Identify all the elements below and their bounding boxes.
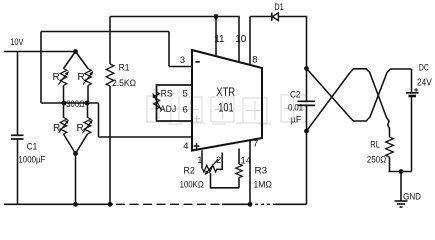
node bridge-rail junction <box>73 202 78 207</box>
wire R1 top <box>109 17 111 65</box>
svg-text:R: R <box>53 123 60 134</box>
wire pin8 to diode <box>250 16 272 18</box>
wire upper-right stub <box>87 86 89 104</box>
svg-text:300Ω: 300Ω <box>66 99 84 110</box>
svg-text:2.5KΩ: 2.5KΩ <box>112 78 136 89</box>
svg-text:7: 7 <box>253 139 258 150</box>
wire pin1 drop <box>201 150 203 168</box>
svg-text:C1: C1 <box>27 142 38 153</box>
wire bridge bottom drop <box>75 154 77 205</box>
node R1-rail junction <box>108 202 113 207</box>
svg-text:D1: D1 <box>274 2 283 13</box>
wire 10V rail <box>4 51 76 53</box>
wire C2 to rail <box>306 131 308 204</box>
resistor R strain-gauge upper-right <box>85 69 92 86</box>
wire pin3 entry <box>169 66 192 68</box>
label plus pin4 <box>194 145 200 147</box>
svg-text:R1: R1 <box>119 63 130 74</box>
label minus pin3 <box>196 61 200 63</box>
svg-text:100KΩ: 100KΩ <box>180 180 204 191</box>
svg-text:XTR: XTR <box>216 87 235 99</box>
svg-text:C2: C2 <box>290 90 301 101</box>
wire bridge left riser <box>40 32 42 104</box>
wire pin7 drop <box>249 140 251 204</box>
resistor R strain-gauge lower-right <box>84 118 91 135</box>
wire bottom rail solid mid <box>222 203 252 205</box>
wire R2 wiper drop <box>211 173 240 188</box>
svg-text:R3: R3 <box>255 166 268 177</box>
resistor RL <box>386 137 394 157</box>
wire bottom rail solid left <box>4 203 113 205</box>
wire pin2 bracket <box>217 153 223 170</box>
wire battery bottom <box>411 97 413 171</box>
svg-text:R: R <box>53 72 60 83</box>
wire upper-left stub <box>63 86 65 104</box>
svg-text:GND: GND <box>403 192 421 203</box>
wire lower-right stub <box>87 103 89 118</box>
node ground junction <box>399 169 404 174</box>
wire C1 top <box>17 52 19 135</box>
svg-text:11: 11 <box>214 34 225 45</box>
wire ground drop <box>400 172 402 201</box>
svg-text:RL: RL <box>370 140 380 151</box>
wire lower-left stub <box>63 103 65 118</box>
svg-text:10: 10 <box>235 34 247 45</box>
svg-text:3: 3 <box>180 55 185 66</box>
wire bottom rail solid right <box>276 203 307 205</box>
diode D1 <box>271 13 273 21</box>
watermark <box>146 93 306 124</box>
wire C2 top <box>306 69 308 101</box>
svg-text:R2: R2 <box>184 166 195 177</box>
node bridge mid-right junction <box>85 101 90 106</box>
resistor R strain-gauge upper-left <box>60 69 67 86</box>
capacitor C2 <box>298 100 316 102</box>
svg-text:8: 8 <box>252 54 257 65</box>
svg-text:DC: DC <box>419 62 429 73</box>
battery DC plates <box>406 92 419 94</box>
node C2 bottom junction <box>304 129 309 134</box>
wire to pin3 horizontal <box>41 31 169 33</box>
svg-text:ADJ: ADJ <box>160 104 177 115</box>
wire RL bottom <box>389 157 391 172</box>
resistor R strain-gauge lower-left <box>60 118 67 135</box>
wire R1 bottom <box>109 86 111 204</box>
wire bottom return <box>389 171 412 173</box>
wire pin8 riser <box>249 17 251 66</box>
node bridge bottom junction <box>73 151 78 156</box>
svg-text:101: 101 <box>218 103 234 115</box>
wire twisted pair conductor B <box>307 69 390 137</box>
svg-text:5: 5 <box>183 89 188 100</box>
potentiometer R2 <box>203 165 218 172</box>
wire top rail <box>110 17 239 63</box>
node bridge top junction <box>73 49 78 54</box>
wire bridge bottom-right diagonal <box>76 134 88 154</box>
svg-text:10V: 10V <box>10 37 24 48</box>
svg-text:RS: RS <box>161 89 173 100</box>
wire bridge top-right diagonal <box>76 52 89 69</box>
node bridge mid-left junction <box>62 101 67 106</box>
wire RS adjust arrow <box>153 94 162 111</box>
wire twisted pair conductor A <box>307 69 412 122</box>
node C2 top junction <box>304 66 309 71</box>
capacitor C1 <box>11 134 24 136</box>
svg-text:µF: µF <box>291 115 302 126</box>
label battery plus <box>414 89 418 91</box>
svg-text:0.01: 0.01 <box>288 102 303 113</box>
svg-text:4: 4 <box>183 141 188 152</box>
wire pin4 entry <box>99 136 193 138</box>
wire bridge bottom-left diagonal <box>64 134 76 154</box>
svg-text:1MΩ: 1MΩ <box>254 180 272 191</box>
op-amp U1 XTR101 body <box>192 50 262 151</box>
wire bridge top-left diagonal <box>64 52 76 69</box>
wire R3 bottom <box>238 178 240 188</box>
node pin7-rail junction <box>248 202 253 207</box>
node pin11 junction <box>214 14 219 19</box>
wire battery top <box>411 69 413 92</box>
wire C2 bottom <box>306 106 308 131</box>
svg-text:R: R <box>78 72 85 83</box>
resistor RS adjust zigzag <box>154 92 160 109</box>
wire C1 bottom <box>17 140 19 205</box>
svg-text:6: 6 <box>183 105 188 116</box>
wire pin11 riser <box>215 17 217 57</box>
wire pin14 drop <box>238 149 240 165</box>
svg-text:250Ω: 250Ω <box>367 155 386 166</box>
wire pin3 drop <box>168 32 170 67</box>
wire bottom rail dotted <box>255 203 276 205</box>
svg-text:R: R <box>77 123 84 134</box>
wire bridge middle bar <box>41 102 99 104</box>
ground <box>395 200 408 202</box>
box RS ADJ <box>157 85 193 121</box>
wire R2 arrow <box>205 159 218 175</box>
svg-text:1000µF: 1000µF <box>18 155 45 166</box>
wire bridge right riser <box>98 103 100 137</box>
resistor R1 <box>106 64 114 86</box>
svg-text:24V: 24V <box>417 77 432 88</box>
wire diode to corner <box>278 17 306 69</box>
wire bottom rail dashed middle <box>116 203 222 205</box>
resistor R3 <box>236 164 242 178</box>
